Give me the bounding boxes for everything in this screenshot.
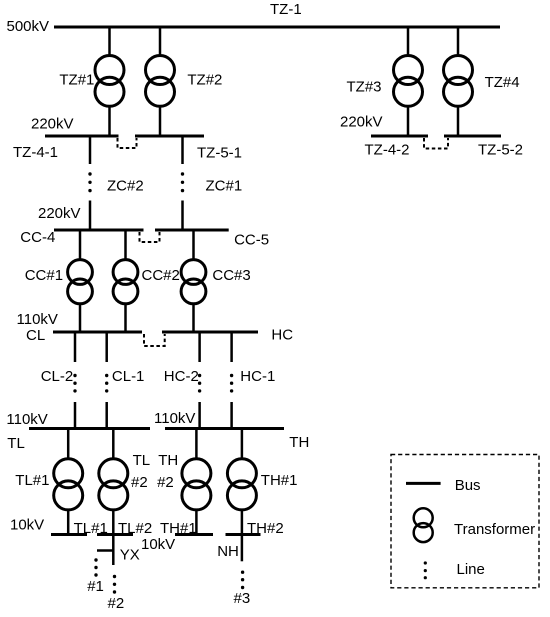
svg-text:Bus: Bus: [455, 477, 481, 494]
svg-text:#2: #2: [157, 474, 174, 491]
svg-text:110kV: 110kV: [6, 411, 47, 428]
svg-text:#1: #1: [87, 578, 104, 595]
svg-text:TL: TL: [133, 452, 151, 469]
svg-text:220kV: 220kV: [38, 205, 81, 222]
svg-text:CC#2: CC#2: [142, 267, 180, 284]
svg-text:TH: TH: [158, 452, 178, 469]
svg-text:TZ-5-2: TZ-5-2: [478, 142, 523, 159]
svg-text:TL#1: TL#1: [15, 472, 49, 489]
svg-text:CC#1: CC#1: [25, 267, 63, 284]
svg-text:110kV: 110kV: [17, 311, 58, 328]
svg-text:TL#2: TL#2: [118, 520, 152, 537]
svg-text:10kV: 10kV: [141, 536, 175, 553]
svg-text:#2: #2: [131, 474, 148, 491]
svg-text:YX: YX: [120, 546, 140, 563]
svg-text:110kV: 110kV: [154, 410, 195, 427]
svg-text:220kV: 220kV: [31, 116, 74, 133]
svg-text:TZ#1: TZ#1: [59, 71, 94, 88]
svg-text:TH#1: TH#1: [261, 472, 298, 489]
svg-text:CL-2: CL-2: [41, 368, 74, 385]
svg-text:ZC#2: ZC#2: [107, 178, 144, 195]
svg-text:TL#1: TL#1: [74, 520, 108, 537]
svg-text:CC#3: CC#3: [212, 267, 250, 284]
svg-text:#2: #2: [108, 595, 125, 612]
svg-text:TH: TH: [289, 434, 309, 451]
svg-text:TZ#2: TZ#2: [187, 71, 222, 88]
svg-text:HC-2: HC-2: [164, 368, 199, 385]
svg-text:TH#2: TH#2: [247, 520, 284, 537]
svg-text:500kV: 500kV: [7, 18, 50, 35]
svg-text:TZ-1: TZ-1: [270, 1, 302, 18]
svg-text:CC-4: CC-4: [20, 229, 55, 246]
svg-text:TH#1: TH#1: [160, 520, 197, 537]
svg-text:HC-1: HC-1: [240, 368, 275, 385]
svg-text:ZC#1: ZC#1: [206, 178, 243, 195]
svg-text:CL: CL: [26, 327, 45, 344]
svg-text:CC-5: CC-5: [234, 232, 269, 249]
svg-text:TZ#4: TZ#4: [485, 74, 520, 91]
svg-text:TZ-5-1: TZ-5-1: [197, 145, 242, 162]
svg-text:220kV: 220kV: [340, 114, 383, 131]
svg-text:Transformer: Transformer: [454, 521, 535, 538]
svg-text:TZ-4-2: TZ-4-2: [365, 142, 410, 159]
svg-text:TL: TL: [7, 435, 25, 452]
svg-text:CL-1: CL-1: [112, 368, 145, 385]
svg-text:NH: NH: [217, 543, 239, 560]
svg-text:TZ#3: TZ#3: [347, 79, 382, 96]
svg-text:10kV: 10kV: [10, 517, 44, 534]
svg-text:#3: #3: [234, 590, 251, 607]
svg-text:Line: Line: [457, 561, 485, 578]
svg-text:TZ-4-1: TZ-4-1: [13, 144, 58, 161]
svg-text:HC: HC: [271, 326, 293, 343]
